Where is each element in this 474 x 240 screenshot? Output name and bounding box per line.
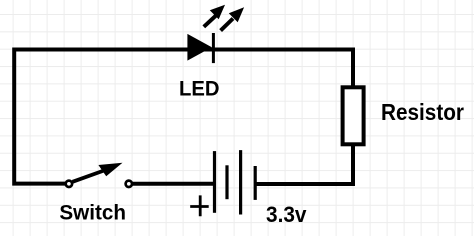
- switch SW1 (two terminals and lever arm with arrowhead): [66, 163, 132, 187]
- LED D1 (diode triangle, cathode bar, two emission arrows): [187, 5, 244, 63]
- wire: main loop (switch up left side, across top, down to resistor): [14, 50, 353, 184]
- battery polarity + mark: [190, 195, 209, 216]
- wire: switch right terminal to battery positive plate: [131, 182, 213, 186]
- resistor R1: [343, 87, 364, 144]
- svg-text:Switch: Switch: [59, 201, 126, 224]
- svg-text:3.3v: 3.3v: [266, 202, 307, 227]
- svg-text:LED: LED: [179, 76, 220, 101]
- battery BT1 (3.3v cell stack: long-short-long-short plates): [215, 150, 256, 214]
- wire: battery negative plate to resistor bottom: [256, 146, 353, 184]
- svg-text:Resistor: Resistor: [381, 99, 464, 125]
